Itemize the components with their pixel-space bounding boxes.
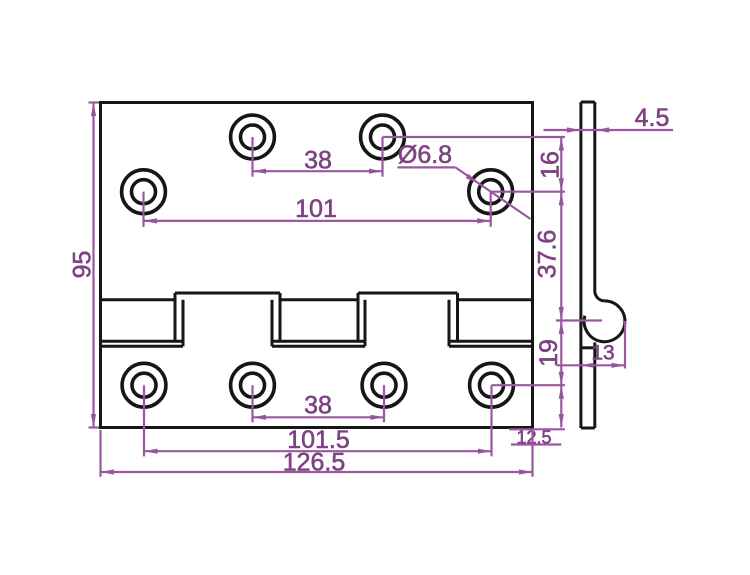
- side view leaf left edge: [579, 102, 582, 428]
- dim 19 text: [535, 339, 563, 367]
- chain dimension line right side: [560, 137, 562, 428]
- svg-text:126.5: 126.5: [283, 448, 346, 476]
- svg-text:37.6: 37.6: [533, 230, 561, 279]
- dim 4.5 text: [635, 104, 670, 132]
- dim 126.5 text: [283, 448, 346, 476]
- dim 38 bottom text: [304, 391, 332, 419]
- extension line at second hole row y: [491, 191, 565, 193]
- dim 37.6 text: [533, 230, 561, 279]
- hole bottom row 1 (countersink + bore): [122, 363, 166, 407]
- svg-text:19: 19: [535, 339, 563, 367]
- dia 6.8 leader line and arrow: [455, 167, 530, 219]
- dim 38 top text: [304, 146, 332, 174]
- hinge knuckle top edge (lower leaf tabs): [175, 292, 458, 295]
- dim 101.5 line and arrows: [144, 449, 492, 454]
- dim 126.5 line and arrows: [101, 469, 533, 474]
- hole upper row outer-left (countersink + bore): [122, 170, 166, 214]
- hole bottom row 2 (countersink + bore): [231, 363, 275, 407]
- dim 4.5 line and arrows: [544, 127, 674, 132]
- dia 6.8 underline: [398, 166, 456, 168]
- dim 16 text: [536, 151, 564, 179]
- side view bottom edge: [581, 427, 595, 430]
- side view right edge lower: [593, 343, 596, 429]
- side view curl-to-leaf junction line: [581, 346, 595, 349]
- hole upper row outer-right (countersink + bore): [469, 170, 513, 214]
- dim 95 line and arrows: [91, 103, 96, 428]
- dim 95 text: [68, 251, 96, 279]
- dim 101.5 text: [287, 426, 350, 454]
- svg-text:12.5: 12.5: [516, 427, 551, 447]
- dia 6.8 text: [398, 141, 452, 169]
- chain dim arrows at 16/37.6/19/12.5 boundaries: [559, 137, 564, 428]
- lower leaf top edge: [101, 340, 533, 343]
- svg-text:38: 38: [304, 146, 332, 174]
- upper leaf knuckle bottom edge: [101, 345, 533, 348]
- upper leaf bottom edge: [101, 298, 533, 301]
- dim 38 top line and arrows: [253, 169, 383, 174]
- hole top row inner-right (countersink + bore): [361, 115, 405, 159]
- svg-text:101: 101: [295, 195, 337, 223]
- dim 38 bottom extension lines: [253, 385, 385, 422]
- dim 38 bottom line and arrows: [253, 415, 385, 420]
- extension line at bottom hole row y: [492, 384, 566, 386]
- dim 13 line and arrows: [557, 363, 626, 368]
- svg-text:95: 95: [68, 251, 96, 279]
- side view right edge upper + curl fillet: [595, 102, 605, 301]
- svg-text:38: 38: [304, 391, 332, 419]
- dim 38 top extension lines: [253, 137, 383, 177]
- dim 101.5 extension lines: [144, 385, 492, 456]
- dim 95 extension stubs: [89, 103, 100, 428]
- dim 101 extension lines: [144, 192, 491, 227]
- extension line at top hole row y: [383, 136, 566, 138]
- dim 101 text: [295, 195, 337, 223]
- dim 126.5 extension lines: [101, 430, 533, 477]
- knuckle joint vertical edges: [175, 293, 458, 346]
- dim 13 text: [591, 341, 614, 364]
- svg-text:16: 16: [536, 151, 564, 179]
- dim 12.5 leader: [511, 443, 561, 445]
- dim 12.5 text: [516, 427, 551, 447]
- dim 13 extension line: [624, 321, 626, 369]
- side view knuckle curl circle: [584, 301, 625, 342]
- hole top row inner-left (countersink + bore): [231, 115, 275, 159]
- svg-text:Ø6.8: Ø6.8: [398, 141, 452, 169]
- side view top edge: [581, 101, 595, 104]
- front view plate outline: [101, 103, 533, 428]
- dim 101 line and arrows: [144, 218, 491, 223]
- hole bottom row 4 (countersink + bore): [470, 363, 514, 407]
- svg-text:13: 13: [591, 341, 614, 364]
- svg-text:4.5: 4.5: [635, 104, 670, 132]
- extension line at plate bottom y: [509, 428, 565, 430]
- extension line at knuckle center y: [556, 319, 602, 321]
- hole bottom row 3 (countersink + bore): [362, 363, 406, 407]
